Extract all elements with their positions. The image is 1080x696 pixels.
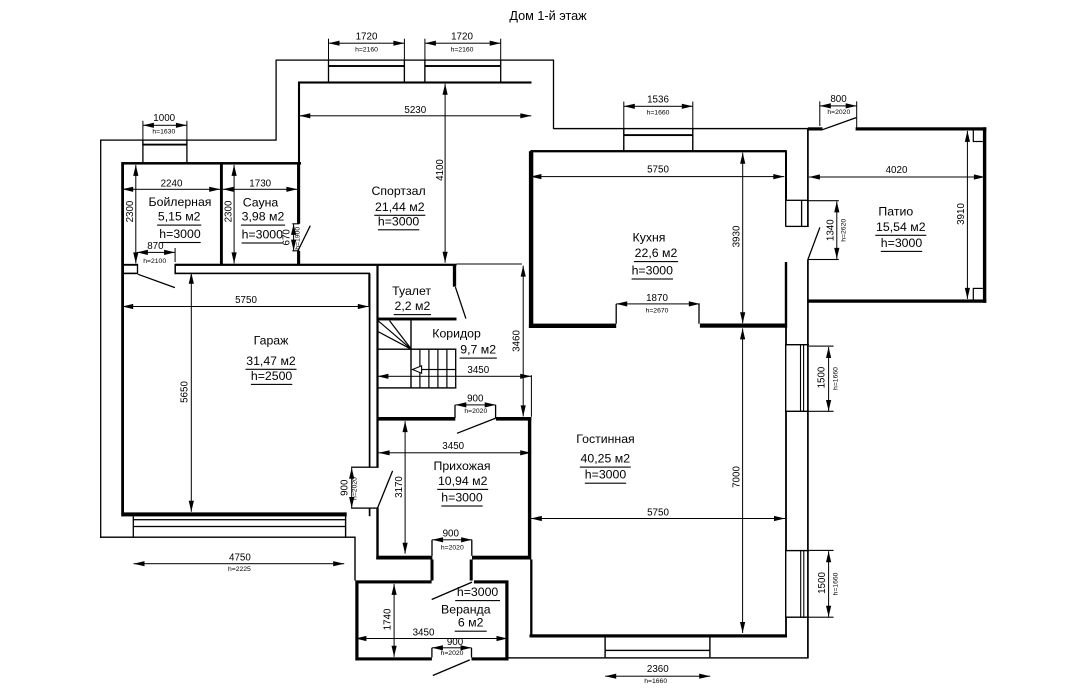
wall boilernaya-sauna top xyxy=(122,162,302,165)
dim 670 tick bottom xyxy=(292,250,299,251)
svg-text:h=2160: h=2160 xyxy=(355,46,378,53)
window kitchen 1536 left jamb xyxy=(623,129,624,152)
stairs center vertical xyxy=(410,320,411,388)
dim 900 veranda door xyxy=(432,647,472,648)
wall toilet bottom xyxy=(377,318,457,321)
wall outer east upper xyxy=(807,129,809,227)
svg-text:3450: 3450 xyxy=(442,441,464,452)
svg-text:6 м2: 6 м2 xyxy=(458,616,484,630)
door leaf toilet xyxy=(455,287,466,319)
wall outer contour top xyxy=(276,59,554,60)
dim 1500-2 tick bottom xyxy=(809,617,833,618)
wall veranda bottom right xyxy=(472,657,509,660)
dim 3910 xyxy=(967,131,968,299)
dim 1340 tick bottom xyxy=(808,259,839,260)
svg-text:21,44 м2: 21,44 м2 xyxy=(375,200,425,214)
door leaf koridor 900 xyxy=(457,418,496,433)
wall patio top xyxy=(856,127,987,130)
svg-text:3460: 3460 xyxy=(512,330,523,352)
door 900 veranda jamb right xyxy=(471,648,472,658)
door 900 veranda jamb left xyxy=(431,648,432,658)
window 2360 inner line xyxy=(605,650,710,651)
dim 5750 ext right xyxy=(368,274,369,306)
svg-text:1720: 1720 xyxy=(356,31,378,42)
stairs direction arrow xyxy=(413,366,422,373)
svg-text:Прихожая: Прихожая xyxy=(434,459,491,473)
wall veranda top right xyxy=(474,580,509,583)
svg-text:h=2670: h=2670 xyxy=(646,307,669,314)
svg-text:3450: 3450 xyxy=(413,627,435,638)
svg-text:3450: 3450 xyxy=(467,365,489,376)
svg-text:5750: 5750 xyxy=(647,507,669,518)
window 2360 left jamb xyxy=(604,638,605,658)
window east-1 glazing b xyxy=(803,345,804,412)
wall prihozhaya top right xyxy=(496,417,531,421)
door 1870 jamb right xyxy=(698,304,699,324)
svg-text:1870: 1870 xyxy=(646,293,668,304)
wall outer contour step down xyxy=(553,60,554,129)
door 900 koridor jamb right xyxy=(495,405,496,418)
wall sauna east below door xyxy=(297,251,300,265)
svg-text:h=3000: h=3000 xyxy=(585,468,627,482)
wall kitchen bottom west xyxy=(529,324,616,328)
svg-text:2300: 2300 xyxy=(223,200,234,222)
svg-text:10,94 м2: 10,94 м2 xyxy=(438,474,488,488)
window sportzal-1 inner line xyxy=(329,65,405,67)
svg-text:9,7 м2: 9,7 м2 xyxy=(460,343,496,357)
dim 900 prihozhaya door xyxy=(432,539,472,540)
door leaf garage 900 xyxy=(378,471,393,508)
svg-text:h=2500: h=2500 xyxy=(251,369,293,383)
svg-text:900: 900 xyxy=(447,637,464,648)
dim 900 koridor door xyxy=(455,404,495,405)
svg-text:Коридор: Коридор xyxy=(432,327,481,341)
wall garage top outer line right xyxy=(175,264,456,266)
wall prihozhaya west lower xyxy=(376,509,378,560)
wall prihozhaya bottom right xyxy=(472,556,530,560)
wall sportzal top xyxy=(298,81,532,83)
svg-text:5650: 5650 xyxy=(180,381,191,403)
wall toilet east xyxy=(453,264,456,287)
window boilernaya 1000 left jamb xyxy=(142,140,143,162)
wall sauna east xyxy=(297,163,300,224)
svg-text:h=3000: h=3000 xyxy=(441,490,483,504)
dim 3930 xyxy=(742,153,743,324)
svg-text:31,47 м2: 31,47 м2 xyxy=(246,354,296,368)
svg-text:Веранда: Веранда xyxy=(441,602,491,616)
svg-text:Спортзал: Спортзал xyxy=(371,184,425,198)
wall outer contour top-left xyxy=(100,139,277,140)
door 870 jamb right xyxy=(174,264,176,274)
stairs fan diagonal 3 xyxy=(378,332,412,350)
wall outer east lower xyxy=(807,260,809,659)
svg-text:h=2160: h=2160 xyxy=(451,46,474,53)
dim 1870 kitchen door xyxy=(616,303,700,304)
dim 2360 window xyxy=(605,676,710,677)
wall veranda east xyxy=(505,581,508,661)
dim 3450 koridor xyxy=(377,376,531,377)
door leaf prihozhaya 900 xyxy=(432,582,472,599)
door leaf veranda 900 xyxy=(433,660,470,676)
svg-text:900: 900 xyxy=(467,394,484,405)
svg-text:4750: 4750 xyxy=(229,552,251,563)
svg-text:h=3000: h=3000 xyxy=(881,236,923,250)
wall passage east xyxy=(470,560,473,581)
dim 1720 ext c xyxy=(424,39,425,83)
svg-text:2,2 м2: 2,2 м2 xyxy=(394,299,430,313)
svg-text:5750: 5750 xyxy=(235,295,257,306)
wall boilernaya/sauna divider xyxy=(220,164,223,265)
svg-text:1720: 1720 xyxy=(451,31,473,42)
patio corner notch top horiz xyxy=(973,141,983,142)
svg-text:3910: 3910 xyxy=(956,203,967,225)
svg-text:1500: 1500 xyxy=(817,572,828,594)
dim 5750 kitchen xyxy=(530,176,784,177)
svg-text:h=2620: h=2620 xyxy=(841,219,848,242)
dim 1536 ext right xyxy=(692,102,693,150)
wall kitchen east lower xyxy=(785,262,787,328)
dim 900 garage door xyxy=(351,468,352,508)
wall garage bottom xyxy=(122,512,347,516)
svg-text:40,25 м2: 40,25 м2 xyxy=(581,452,631,466)
wall gostinnaya west xyxy=(528,417,531,559)
svg-text:1500: 1500 xyxy=(817,366,828,388)
svg-text:Туалет: Туалет xyxy=(392,284,431,298)
svg-text:5750: 5750 xyxy=(647,164,669,175)
wall outer contour above kitchen xyxy=(554,128,809,129)
window kitchen-patio niche top xyxy=(785,200,808,201)
door leaf patio 1340 xyxy=(808,227,820,259)
svg-text:5230: 5230 xyxy=(404,105,426,116)
stairs tread 2 xyxy=(428,349,429,388)
window boilernaya 1000 right jamb xyxy=(186,140,187,162)
window kitchen 1536 inner line xyxy=(624,134,693,136)
dim 4020 xyxy=(809,177,985,178)
wall kitchen top xyxy=(530,150,786,152)
wall garage top inner line left xyxy=(122,273,139,275)
dim 870 boiler door xyxy=(137,252,175,253)
dim 800 patio door xyxy=(820,105,857,106)
window kitchen 1536 right jamb xyxy=(692,129,693,152)
door 900 veranda-top jamb left xyxy=(431,540,432,556)
svg-text:22,6 м2: 22,6 м2 xyxy=(635,246,678,260)
wall sportzal/kitchen divider xyxy=(529,151,533,328)
wall prihozhaya top left xyxy=(377,417,456,421)
stairs direction line xyxy=(413,369,456,370)
window east-2 bottom xyxy=(785,617,809,618)
svg-text:900: 900 xyxy=(340,479,351,496)
dim 1000 ext right xyxy=(186,121,187,144)
stairs right edge xyxy=(455,349,456,388)
dim 2300 sauna xyxy=(234,165,235,264)
dim 3460 ext top xyxy=(457,264,522,265)
svg-text:h=3000: h=3000 xyxy=(632,263,674,277)
wall garage top outer line xyxy=(122,264,139,266)
svg-text:3930: 3930 xyxy=(732,225,743,247)
window sportzal-2 left jamb xyxy=(424,60,425,82)
svg-text:Сауна: Сауна xyxy=(243,195,279,209)
window sportzal-1 left jamb xyxy=(328,60,329,82)
stairs tread 4 xyxy=(446,349,447,388)
window kitchen-patio niche glazing xyxy=(801,200,802,227)
svg-text:2300: 2300 xyxy=(125,200,136,222)
svg-text:15,54 м2: 15,54 м2 xyxy=(876,220,926,234)
window east-1 top xyxy=(785,344,809,345)
window east-1 bottom xyxy=(785,411,809,412)
dim 4100 xyxy=(445,84,446,263)
wall veranda west xyxy=(355,581,358,661)
stairs mid horizontal xyxy=(377,349,456,350)
window kitchen-patio niche left xyxy=(785,200,786,226)
window east-1 glazing a xyxy=(800,345,801,412)
dim 3170 xyxy=(405,421,406,554)
svg-text:h=1660: h=1660 xyxy=(832,367,839,390)
wall kitchen east upper xyxy=(785,151,787,200)
dim 1340 patio door xyxy=(836,201,837,259)
dim 3450 veranda xyxy=(355,638,507,639)
dim 2240 xyxy=(122,189,220,190)
dim 1740 xyxy=(394,584,395,657)
wall patio 800-door jamb xyxy=(808,127,823,130)
dim 1720 ext a xyxy=(328,39,329,60)
window sportzal-1 right jamb xyxy=(404,60,405,82)
svg-text:900: 900 xyxy=(443,528,460,539)
svg-text:870: 870 xyxy=(147,241,164,252)
svg-text:4020: 4020 xyxy=(886,165,908,176)
svg-text:2360: 2360 xyxy=(647,664,669,675)
svg-text:1740: 1740 xyxy=(382,608,393,630)
svg-text:h=2020: h=2020 xyxy=(441,544,464,551)
dim 1536 ext left xyxy=(623,102,624,150)
patio corner notch top vert xyxy=(973,131,974,143)
window 2360 right jamb xyxy=(709,638,710,658)
door 1870 jamb left xyxy=(616,304,617,324)
svg-text:h=2020: h=2020 xyxy=(351,477,358,500)
svg-text:4100: 4100 xyxy=(435,159,446,181)
svg-text:h=2020: h=2020 xyxy=(827,109,850,116)
window east-2 glazing a xyxy=(800,551,801,618)
wall gostinnaya east segment 1 xyxy=(785,328,787,345)
window sportzal-2 inner line xyxy=(425,65,501,67)
dim 3450 prihozhaya xyxy=(379,452,532,453)
svg-text:h=1630: h=1630 xyxy=(152,128,175,135)
window east-2 left edge xyxy=(785,551,786,618)
dim 3460 xyxy=(523,266,524,417)
dim 1000 window xyxy=(143,125,187,126)
dim 5750 garage xyxy=(122,306,369,307)
svg-text:Бойлерная: Бойлерная xyxy=(149,195,212,209)
door leaf patio 800 xyxy=(823,118,857,130)
svg-text:2240: 2240 xyxy=(161,179,183,190)
dim 870 ext right xyxy=(175,248,176,262)
wall toilet west / garage east inner xyxy=(376,265,378,468)
stairs tread 3 xyxy=(437,349,438,388)
dim 5750 gostinnaya xyxy=(531,518,785,519)
door leaf boilernaya 870 xyxy=(138,274,175,287)
garage gate line 1 xyxy=(133,519,345,520)
dim 1720 ext d xyxy=(500,39,501,60)
dim 1720 ext b xyxy=(404,39,405,83)
svg-text:800: 800 xyxy=(830,94,847,105)
dim 1500-1 tick bottom xyxy=(809,411,834,412)
svg-text:Гостинная: Гостинная xyxy=(576,432,634,446)
svg-text:h=2225: h=2225 xyxy=(228,566,251,573)
dim 1720 window-1 xyxy=(329,43,405,44)
door 900 koridor jamb left xyxy=(454,405,455,418)
door 900 veranda-top jamb right xyxy=(471,540,472,556)
stairs fan diagonal 2 xyxy=(390,321,412,350)
dim 5230 xyxy=(299,115,531,116)
stairs fan diagonal 1 xyxy=(378,321,412,350)
garage gate right edge xyxy=(345,512,346,537)
window east-2 top xyxy=(785,550,809,551)
dim 1500-2 tick top xyxy=(809,550,833,551)
wall patio bottom xyxy=(808,299,986,302)
wall outer contour bottom-left xyxy=(100,537,356,538)
wall garage top inner line xyxy=(175,273,370,275)
door leaf sauna xyxy=(298,226,310,251)
wall outer contour left of veranda xyxy=(354,537,355,580)
dim 2300 boilernaya xyxy=(135,165,136,264)
stairs bottom line xyxy=(377,387,456,388)
wall outer contour step up xyxy=(275,60,276,141)
svg-text:h=1660: h=1660 xyxy=(833,572,840,595)
svg-text:1536: 1536 xyxy=(647,94,669,105)
svg-text:h=1660: h=1660 xyxy=(644,678,667,685)
window sportzal-2 right jamb xyxy=(500,60,501,82)
svg-text:h=3000: h=3000 xyxy=(378,214,420,228)
wall gostinnaya bottom xyxy=(530,634,788,637)
dim 670 tick top xyxy=(292,223,299,224)
patio corner notch bottom horiz xyxy=(973,288,983,289)
svg-text:Гараж: Гараж xyxy=(254,334,289,348)
wall prihozhaya bottom left xyxy=(376,556,432,560)
dim 1500 window-1 xyxy=(828,347,829,411)
svg-text:h=3000: h=3000 xyxy=(159,227,201,241)
wall gostinnaya west lower xyxy=(530,560,532,636)
window east-1 left edge xyxy=(785,345,786,412)
svg-text:h=3000: h=3000 xyxy=(242,227,284,241)
svg-text:1730: 1730 xyxy=(249,179,271,190)
svg-text:h=2020: h=2020 xyxy=(464,408,487,415)
svg-text:Кухня: Кухня xyxy=(633,231,666,245)
dim 1000 ext left xyxy=(142,121,143,144)
wall veranda bottom left xyxy=(356,657,432,660)
wall sauna east upper (sportzal west) xyxy=(298,82,300,163)
svg-text:3170: 3170 xyxy=(394,476,405,498)
dim 670 sauna door xyxy=(293,224,294,251)
wall gostinnaya east segment 2 xyxy=(785,411,787,550)
wall passage west xyxy=(431,560,434,581)
svg-text:3,98 м2: 3,98 м2 xyxy=(242,210,285,224)
wall outer contour left xyxy=(100,140,101,539)
svg-text:h=1660: h=1660 xyxy=(647,110,670,117)
door 900 garage closure bottom xyxy=(351,507,379,508)
dim 1730 xyxy=(223,189,298,190)
stairs tread 1 xyxy=(419,349,420,388)
svg-text:670: 670 xyxy=(282,229,293,246)
svg-text:1340: 1340 xyxy=(825,219,836,241)
dim 800 ext left xyxy=(819,101,820,126)
window boilernaya 1000 inner line xyxy=(142,144,187,146)
door 870 jamb left xyxy=(137,264,138,274)
wall veranda top left xyxy=(356,580,432,583)
svg-text:h=3000: h=3000 xyxy=(457,585,499,599)
garage gate left edge xyxy=(133,516,134,537)
svg-text:h=2100: h=2100 xyxy=(143,258,166,265)
svg-text:7000: 7000 xyxy=(731,466,742,488)
dim 5650 xyxy=(191,273,192,512)
wall garage east outer line xyxy=(369,273,371,467)
dim 1536 window xyxy=(624,106,693,107)
door 900 garage closure top xyxy=(351,467,379,468)
window east-2 glazing b xyxy=(803,551,804,618)
dim 1720 window-2 xyxy=(425,43,501,44)
patio corner notch bottom vert xyxy=(973,288,974,300)
svg-text:Дом 1-й этаж: Дом 1-й этаж xyxy=(509,9,587,23)
dim 3450 ext right xyxy=(531,375,532,417)
dim 1500 window-2 xyxy=(828,551,829,617)
garage gate line 2 xyxy=(133,526,345,527)
wall gostinnaya east segment 3 xyxy=(785,617,787,636)
dim 4750 garage gate xyxy=(134,563,345,564)
wall west (boilernaya+garage) xyxy=(121,162,124,516)
dim 1340 tick top xyxy=(808,200,839,201)
svg-text:h=2020: h=2020 xyxy=(441,650,464,657)
svg-text:1000: 1000 xyxy=(153,113,175,124)
window kitchen-patio niche bottom xyxy=(785,226,808,227)
wall outer contour bottom-right xyxy=(508,657,809,658)
wall patio east xyxy=(983,127,986,302)
svg-text:Патио: Патио xyxy=(878,204,913,218)
dim 1500-1 tick top xyxy=(809,346,834,347)
svg-text:5,15 м2: 5,15 м2 xyxy=(158,210,201,224)
wall kitchen bottom east xyxy=(700,324,787,328)
dim 800 ext right xyxy=(856,101,857,128)
wall garage east outer stub xyxy=(369,509,371,517)
dim 7000 xyxy=(742,328,743,633)
